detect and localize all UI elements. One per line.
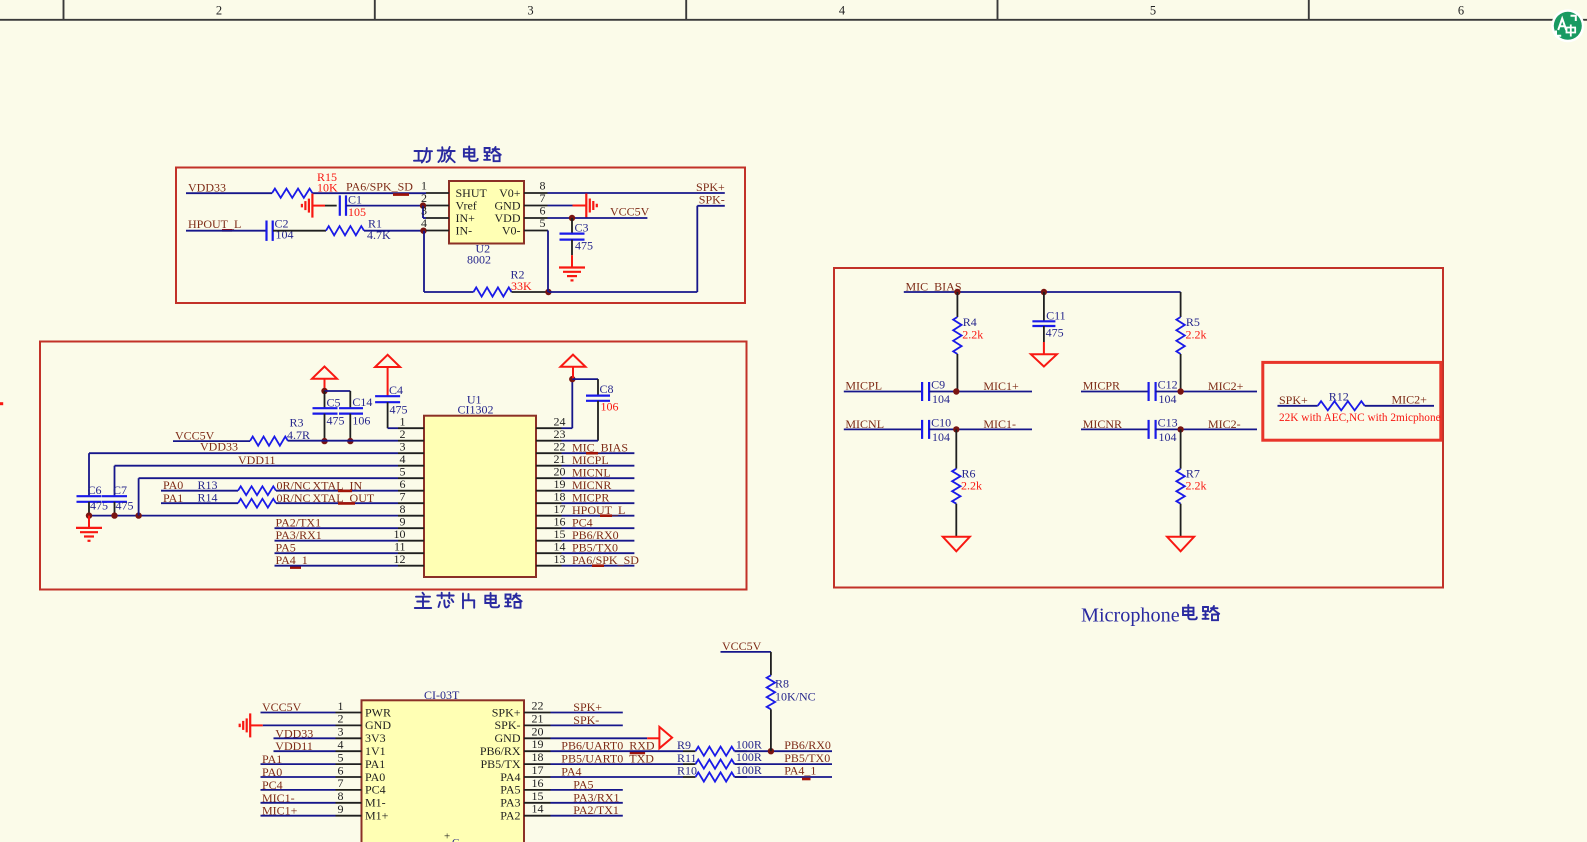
wire bbox=[1365, 405, 1434, 407]
wire bbox=[562, 502, 635, 504]
wire bbox=[735, 750, 833, 752]
wire bbox=[721, 652, 771, 675]
net label MIC1+ bbox=[983, 379, 1019, 393]
title Microphone电路 bbox=[1081, 604, 1219, 626]
svg-text:10K: 10K bbox=[317, 180, 338, 194]
svg-text:106: 106 bbox=[601, 399, 619, 413]
svg-text:6: 6 bbox=[338, 763, 344, 777]
svg-text:R12: R12 bbox=[1329, 389, 1349, 403]
net label SPK+ bbox=[696, 180, 725, 194]
wire bbox=[548, 192, 725, 194]
svg-text:22K with AEC,NC with 2micphone: 22K with AEC,NC with 2micphone bbox=[1279, 412, 1441, 424]
wire bbox=[735, 763, 833, 765]
wire bbox=[551, 724, 623, 726]
junction bbox=[1177, 426, 1183, 432]
svg-text:MIC2+: MIC2+ bbox=[1208, 379, 1244, 393]
wire bbox=[275, 565, 399, 567]
net label VDD33 bbox=[188, 181, 226, 195]
wire bbox=[929, 391, 1032, 393]
net label MICNL bbox=[845, 417, 884, 431]
svg-text:9: 9 bbox=[338, 802, 344, 816]
net label PA4_1 bbox=[784, 764, 816, 779]
svg-text:1V1: 1V1 bbox=[365, 744, 386, 758]
svg-text:2.2k: 2.2k bbox=[1186, 479, 1207, 493]
resistor R13 bbox=[197, 478, 276, 495]
resistor R8 bbox=[767, 675, 816, 751]
capacitor C9 bbox=[922, 377, 950, 406]
svg-text:C7: C7 bbox=[113, 483, 127, 497]
wire bbox=[1081, 428, 1149, 430]
CI-03T pin 4 bbox=[336, 738, 386, 759]
wire bbox=[364, 230, 424, 232]
wire bbox=[844, 428, 922, 430]
junction bbox=[420, 228, 426, 234]
svg-text:475: 475 bbox=[116, 499, 134, 513]
svg-text:PA6/SPK_SD: PA6/SPK_SD bbox=[346, 180, 413, 194]
svg-text:105: 105 bbox=[348, 205, 366, 219]
resistor R12 bbox=[1318, 389, 1365, 410]
svg-text:21: 21 bbox=[532, 711, 544, 725]
net label PA4 bbox=[561, 765, 581, 779]
ground bbox=[559, 255, 585, 280]
net label PA6/SPK_SD bbox=[572, 553, 639, 567]
svg-text:PB6/RX: PB6/RX bbox=[480, 744, 521, 758]
wire bbox=[562, 540, 635, 542]
note box bbox=[1263, 362, 1441, 440]
U2 pin 4 bbox=[421, 216, 449, 230]
svg-text:PA4_1: PA4_1 bbox=[784, 764, 816, 778]
net label MIC2- bbox=[1208, 417, 1241, 431]
power label VCC5V bbox=[722, 639, 762, 653]
wire bbox=[1156, 391, 1258, 393]
resistor R11 bbox=[677, 750, 762, 769]
U1 pin 10 bbox=[394, 527, 425, 541]
U1 pin 17 bbox=[536, 502, 566, 516]
junction bbox=[1177, 388, 1183, 394]
net label MICPL bbox=[845, 379, 882, 393]
wire bbox=[325, 205, 337, 207]
net label PB6/UART0_RXD bbox=[561, 739, 655, 753]
net label PA6/SPK_SD bbox=[346, 180, 413, 195]
svg-text:MIC2-: MIC2- bbox=[1208, 417, 1241, 431]
net label PA0 bbox=[163, 478, 183, 492]
junction bbox=[321, 438, 353, 444]
wire bbox=[274, 737, 336, 739]
svg-text:CI1302: CI1302 bbox=[458, 403, 494, 417]
svg-text:IN-: IN- bbox=[456, 223, 473, 237]
svg-text:PA1: PA1 bbox=[365, 757, 385, 771]
svg-text:VDD33: VDD33 bbox=[200, 440, 238, 454]
resistor R5 bbox=[1176, 292, 1206, 392]
svg-text:PA3/RX1: PA3/RX1 bbox=[573, 790, 619, 804]
svg-text:V0-: V0- bbox=[502, 223, 521, 237]
wire bbox=[275, 552, 399, 554]
svg-text:PA5: PA5 bbox=[500, 783, 520, 797]
translate icon bbox=[1551, 9, 1584, 42]
wire bbox=[562, 527, 635, 529]
module CI-03T bbox=[362, 688, 525, 842]
power VCC symbol bbox=[375, 355, 400, 396]
capacitor C3 bbox=[560, 218, 594, 255]
svg-text:PA6/SPK_SD: PA6/SPK_SD bbox=[572, 553, 639, 567]
svg-text:C13: C13 bbox=[1158, 415, 1178, 429]
U2 pin 1 bbox=[421, 179, 449, 193]
svg-text:475: 475 bbox=[327, 413, 345, 427]
power label VCC5V bbox=[175, 429, 215, 443]
svg-text:7: 7 bbox=[338, 776, 344, 790]
main chip block border bbox=[40, 342, 747, 590]
U1 pin 13 bbox=[536, 552, 566, 566]
U1 pin 14 bbox=[536, 540, 566, 554]
wire bbox=[1081, 391, 1149, 393]
CI-03T pin 9 bbox=[336, 802, 389, 823]
wire bbox=[551, 763, 748, 765]
ground bbox=[76, 516, 102, 541]
power earth near R15 bbox=[302, 194, 325, 218]
wire bbox=[261, 712, 336, 714]
resistor R14 bbox=[197, 491, 276, 508]
net label PA0 bbox=[262, 765, 282, 779]
net label PB5/TX0 bbox=[784, 751, 830, 765]
ruler zone numbers bbox=[216, 4, 1464, 18]
CI-03T pin 2 bbox=[336, 712, 392, 733]
CI-03T pin 7 bbox=[336, 776, 386, 797]
title 主芯片电路 bbox=[415, 593, 522, 609]
svg-text:15: 15 bbox=[532, 789, 544, 803]
wire bbox=[273, 230, 326, 232]
net label MICNR bbox=[572, 478, 611, 492]
junction bbox=[953, 426, 959, 432]
capacitor C11 bbox=[1032, 292, 1065, 342]
wire bbox=[735, 776, 833, 778]
wire bbox=[551, 712, 623, 714]
net label MIC_BIAS bbox=[572, 440, 628, 454]
U1 pin 7 bbox=[398, 490, 424, 504]
svg-text:22: 22 bbox=[532, 699, 544, 713]
U1 pin 21 bbox=[536, 452, 566, 466]
wire bbox=[275, 527, 399, 529]
svg-text:PWR: PWR bbox=[365, 705, 391, 719]
net label PB5/UART0_TXD bbox=[561, 752, 654, 766]
svg-text:SPK+: SPK+ bbox=[573, 700, 602, 714]
power ground bbox=[943, 537, 970, 552]
CI-03T pin 14 bbox=[500, 802, 550, 823]
net label SPK- bbox=[699, 193, 725, 207]
CI-03T pin 8 bbox=[336, 789, 386, 810]
wire bbox=[929, 428, 1032, 430]
CI-03T pin 1 bbox=[336, 699, 392, 720]
svg-text:1: 1 bbox=[338, 699, 344, 713]
capacitor C8 bbox=[586, 382, 619, 441]
wire bbox=[312, 192, 426, 194]
wire bbox=[551, 737, 648, 739]
svg-text:C5: C5 bbox=[327, 395, 341, 409]
svg-text:4: 4 bbox=[338, 738, 344, 752]
svg-text:100R: 100R bbox=[736, 763, 762, 777]
wire bbox=[388, 427, 398, 429]
resistor R1 bbox=[326, 216, 391, 242]
power VCC symbol bbox=[561, 355, 586, 380]
svg-text:PA5: PA5 bbox=[573, 777, 593, 791]
junction bbox=[86, 512, 142, 518]
power earth on U2 GND pin bbox=[573, 194, 597, 218]
capacitor C7 bbox=[102, 483, 134, 516]
net label HPOUT_L bbox=[188, 217, 241, 231]
svg-text:19: 19 bbox=[532, 737, 544, 751]
svg-text:PB6/RX0: PB6/RX0 bbox=[784, 738, 831, 752]
U1 pin 20 bbox=[536, 465, 566, 479]
U1 pin 9 bbox=[398, 515, 424, 529]
svg-text:R8: R8 bbox=[775, 677, 789, 691]
wire bbox=[261, 815, 336, 817]
wire bbox=[423, 206, 426, 218]
junction bbox=[954, 289, 1047, 295]
wire bbox=[572, 379, 598, 396]
svg-text:16: 16 bbox=[532, 776, 544, 790]
svg-text:8002: 8002 bbox=[467, 252, 491, 266]
wire bbox=[325, 391, 351, 408]
wire bbox=[173, 440, 250, 442]
net label MIC2+ bbox=[1208, 379, 1244, 393]
capacitor C2 bbox=[267, 217, 294, 242]
wire bbox=[904, 291, 1181, 293]
junction bbox=[420, 202, 426, 208]
net label SPK+ bbox=[1279, 393, 1308, 407]
op-amp U2 bbox=[449, 181, 524, 266]
svg-text:104: 104 bbox=[932, 392, 950, 406]
svg-text:2.2k: 2.2k bbox=[1186, 327, 1207, 341]
ruler tick marks bbox=[64, 0, 1309, 20]
wire bbox=[548, 206, 724, 292]
svg-text:PB5/TX: PB5/TX bbox=[480, 757, 520, 771]
wire bbox=[1156, 428, 1258, 430]
wire bbox=[562, 452, 635, 454]
wire bbox=[547, 231, 550, 293]
wire bbox=[551, 776, 748, 778]
resistor R4 bbox=[953, 292, 983, 392]
wire bbox=[115, 466, 399, 497]
svg-text:SPK-: SPK- bbox=[699, 193, 725, 207]
wire bbox=[274, 750, 336, 752]
svg-text:PA4: PA4 bbox=[500, 770, 520, 784]
U1 pin 3 bbox=[398, 440, 424, 454]
net label PA1 bbox=[262, 752, 282, 766]
svg-text:2.2k: 2.2k bbox=[962, 327, 983, 341]
net label PA3/RX1 bbox=[276, 528, 322, 542]
svg-text:475: 475 bbox=[575, 238, 593, 252]
svg-text:GND: GND bbox=[365, 718, 391, 732]
svg-text:8: 8 bbox=[338, 789, 344, 803]
net label PB5/TX0 bbox=[572, 540, 618, 554]
svg-text:5: 5 bbox=[1150, 4, 1156, 18]
capacitor C6 bbox=[77, 483, 109, 516]
power label VCC5V bbox=[262, 700, 302, 714]
U1 pin 22 bbox=[536, 440, 566, 454]
U2 pin 5 bbox=[524, 216, 548, 230]
svg-text:C4: C4 bbox=[389, 383, 403, 397]
net label VDD11 bbox=[238, 453, 276, 467]
svg-text:10K/NC: 10K/NC bbox=[775, 690, 816, 704]
power ground bbox=[1031, 342, 1057, 367]
wire bbox=[562, 465, 635, 467]
svg-text:5: 5 bbox=[540, 216, 546, 230]
svg-text:C8: C8 bbox=[600, 382, 614, 396]
svg-text:C12: C12 bbox=[1158, 377, 1178, 391]
junction bbox=[768, 748, 774, 754]
net label MIC1- bbox=[262, 791, 295, 805]
svg-text:R11: R11 bbox=[677, 751, 697, 765]
svg-text:VDD11: VDD11 bbox=[238, 453, 276, 467]
wire bbox=[89, 515, 398, 517]
wire bbox=[844, 391, 922, 393]
svg-text:3V3: 3V3 bbox=[365, 731, 386, 745]
wire bbox=[551, 802, 623, 804]
note text bbox=[1279, 412, 1441, 424]
wire bbox=[551, 815, 623, 817]
mcu U1 bbox=[424, 392, 536, 577]
svg-text:SPK+: SPK+ bbox=[492, 705, 521, 719]
net label MICNR bbox=[1083, 417, 1122, 431]
resistor R15 bbox=[272, 170, 338, 198]
capacitor C10 bbox=[922, 415, 951, 444]
svg-text:C14: C14 bbox=[352, 395, 372, 409]
U1 pin 11 bbox=[394, 540, 424, 554]
svg-text:HPOUT_L: HPOUT_L bbox=[188, 217, 241, 231]
svg-text:475: 475 bbox=[90, 499, 108, 513]
net label PB6/RX0 bbox=[784, 738, 831, 752]
CI-03T pin 3 bbox=[336, 725, 386, 746]
svg-text:R10: R10 bbox=[677, 764, 697, 778]
U1 pin 1 bbox=[398, 415, 424, 429]
net label HPOUT_L bbox=[572, 503, 625, 517]
resistor R2 bbox=[474, 268, 533, 297]
net label MICPR bbox=[1083, 379, 1120, 393]
wire bbox=[346, 205, 423, 207]
svg-text:MIC2+: MIC2+ bbox=[1392, 393, 1428, 407]
svg-text:PB5/TX0: PB5/TX0 bbox=[784, 751, 830, 765]
svg-text:GND: GND bbox=[495, 731, 521, 745]
U1 pin 8 bbox=[398, 502, 424, 516]
resistor R9 bbox=[677, 737, 762, 756]
U1 pin 6 bbox=[398, 477, 424, 491]
wire bbox=[562, 477, 635, 479]
svg-text:R9: R9 bbox=[677, 738, 691, 752]
svg-text:18: 18 bbox=[532, 750, 544, 764]
net label MIC_BIAS bbox=[906, 279, 962, 293]
svg-text:+: + bbox=[444, 831, 450, 842]
wire bbox=[261, 802, 336, 804]
net label MIC1- bbox=[983, 417, 1016, 431]
svg-text:4: 4 bbox=[421, 216, 427, 230]
wire bbox=[562, 490, 635, 492]
wire bbox=[512, 291, 549, 293]
svg-text:M1+: M1+ bbox=[365, 809, 389, 823]
wire bbox=[276, 502, 398, 504]
microphone block border bbox=[834, 268, 1443, 588]
wire bbox=[548, 205, 573, 207]
capacitor C12 bbox=[1149, 377, 1178, 406]
U1 pin 12 bbox=[394, 552, 425, 566]
U2 pin 3 bbox=[421, 204, 449, 218]
svg-text:17: 17 bbox=[532, 763, 544, 777]
U1 pin 4 bbox=[398, 452, 424, 466]
svg-text:VCC5V: VCC5V bbox=[610, 205, 650, 219]
net label PA4_1 bbox=[276, 553, 308, 568]
resistor R3 bbox=[250, 416, 310, 446]
svg-text:4: 4 bbox=[839, 4, 846, 18]
junction bbox=[569, 215, 575, 221]
junction bbox=[321, 388, 327, 394]
value 0R/NC and net label XTAL_OUT bbox=[277, 491, 375, 505]
svg-text:2.2k: 2.2k bbox=[961, 479, 982, 493]
wire bbox=[562, 379, 573, 428]
svg-text:PC4: PC4 bbox=[365, 783, 386, 797]
power earth on CI-03T GND pin bbox=[240, 713, 263, 737]
svg-text:Microphone: Microphone bbox=[1081, 604, 1180, 626]
svg-text:14: 14 bbox=[532, 802, 544, 816]
U2 pin 6 bbox=[524, 204, 548, 218]
value 0R/NC and net label XTAL_IN bbox=[277, 479, 363, 493]
svg-text:VCC5V: VCC5V bbox=[722, 639, 762, 653]
wire bbox=[261, 763, 336, 765]
svg-text:2: 2 bbox=[338, 712, 344, 726]
svg-text:PA2/TX1: PA2/TX1 bbox=[573, 803, 619, 817]
svg-text:3: 3 bbox=[527, 4, 533, 18]
U1 pin 19 bbox=[536, 477, 566, 491]
title 功放电路 bbox=[414, 147, 501, 163]
net label PA2/TX1 bbox=[276, 515, 322, 529]
svg-text:6: 6 bbox=[1458, 4, 1464, 18]
net label VDD11 bbox=[275, 739, 313, 753]
power ground bbox=[1167, 537, 1194, 552]
net label SPK- bbox=[573, 713, 599, 727]
U1 pin 5 bbox=[398, 465, 424, 479]
sheet border ruler line bbox=[0, 19, 1587, 21]
svg-text:0R/NC: 0R/NC bbox=[277, 491, 311, 505]
CI-03T pin 5 bbox=[336, 750, 386, 771]
svg-text:SPK-: SPK- bbox=[573, 713, 599, 727]
wire bbox=[161, 502, 238, 504]
wire bbox=[551, 750, 748, 752]
svg-text:3: 3 bbox=[338, 725, 344, 739]
svg-text:104: 104 bbox=[1159, 430, 1177, 444]
svg-text:5: 5 bbox=[338, 750, 344, 764]
svg-text:MIC1-: MIC1- bbox=[983, 417, 1016, 431]
CI-03T pin 22 bbox=[492, 699, 551, 720]
CI-03T pin 20 bbox=[495, 724, 551, 745]
sheet exit arrow bbox=[647, 727, 672, 748]
svg-text:100R: 100R bbox=[736, 737, 762, 751]
resistor R7 bbox=[1176, 429, 1206, 536]
svg-text:PA0: PA0 bbox=[365, 770, 385, 784]
svg-text:C6: C6 bbox=[88, 483, 102, 497]
U2 pin 2 bbox=[421, 191, 449, 205]
capacitor marks at sheet edge bbox=[444, 831, 459, 842]
wire bbox=[275, 540, 399, 542]
net label MIC1+ bbox=[262, 804, 298, 818]
svg-text:106: 106 bbox=[352, 413, 370, 427]
wire bbox=[261, 776, 336, 778]
net label MICPR bbox=[572, 490, 609, 504]
net label MICPL bbox=[572, 453, 609, 467]
svg-text:MIC1+: MIC1+ bbox=[983, 379, 1019, 393]
net label VDD33 bbox=[200, 440, 238, 454]
wire bbox=[1278, 405, 1318, 407]
svg-text:C9: C9 bbox=[931, 377, 945, 391]
wire bbox=[186, 192, 272, 194]
net label PA1 bbox=[163, 491, 183, 505]
net label VDD33 bbox=[275, 726, 313, 740]
